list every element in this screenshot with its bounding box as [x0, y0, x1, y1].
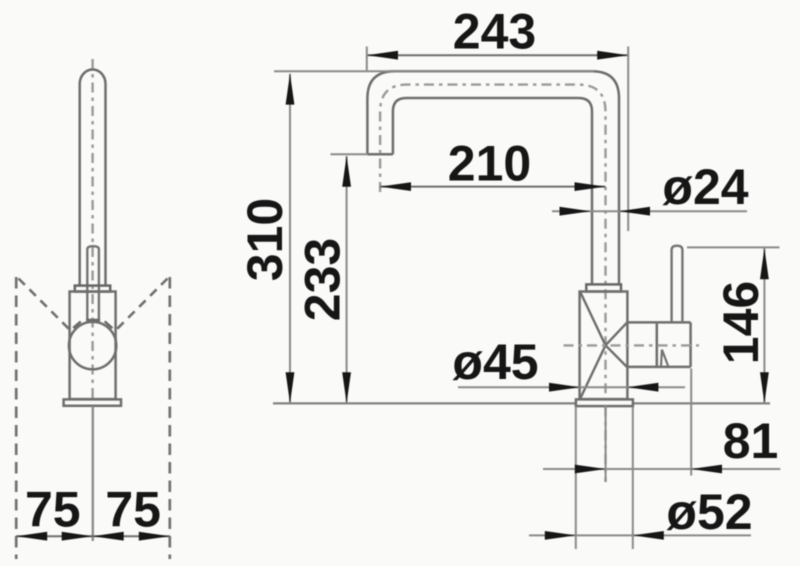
- svg-text:ø24: ø24: [662, 159, 748, 215]
- baseline mounting surface: [273, 402, 770, 404]
- tangent mark left: [73, 322, 81, 328]
- extension 243 left above spout: [366, 47, 368, 73]
- arrow 233 down: [342, 372, 351, 403]
- dimension 75-75: [16, 535, 170, 537]
- reference line top (310): [274, 70, 594, 72]
- dim line 81: [543, 468, 780, 470]
- cone diagonal upper-right: [606, 323, 628, 346]
- arrow dia24 left(tip at tube left edge): [560, 207, 591, 216]
- swivel envelope dashed line left: [15, 277, 18, 559]
- cone diagonal lower-right: [606, 345, 628, 367]
- svg-text:75: 75: [25, 482, 81, 538]
- dim line 75/75: [16, 535, 170, 537]
- base flange side: [576, 399, 633, 406]
- dim line 146: [763, 248, 765, 403]
- arrow dia52 right: [633, 531, 664, 540]
- arrow 210 left: [380, 182, 411, 191]
- lever rod side: [672, 246, 683, 323]
- arrow center left-pointing: [93, 532, 124, 541]
- svg-text:243: 243: [453, 4, 536, 60]
- dim line 210: [380, 186, 606, 188]
- arrow dia52 left: [545, 531, 576, 540]
- arrow 146 up: [760, 248, 769, 279]
- spout outer outline: [367, 71, 619, 284]
- extension lever right (81): [690, 369, 692, 476]
- arrow 243 left: [367, 51, 398, 60]
- dim line 233: [346, 156, 348, 403]
- centerline front vertical: [91, 59, 93, 399]
- arrow center right-pointing: [62, 532, 93, 541]
- dim line dia45: [458, 386, 685, 388]
- svg-text:75: 75: [105, 482, 161, 538]
- dim line dia24: [552, 210, 747, 212]
- arrow dia24 right(tip at tube right edge): [619, 207, 650, 216]
- cone diagonal lower-left: [581, 345, 606, 398]
- stem centerline below flange: [92, 406, 94, 541]
- svg-text:210: 210: [448, 136, 531, 192]
- handle axis centerline: [564, 344, 700, 346]
- collar side: [586, 284, 621, 291]
- body cylinder side: [580, 292, 628, 400]
- dim line 243: [367, 54, 628, 56]
- svg-text:146: 146: [713, 281, 769, 364]
- cone diagonal upper-left: [581, 293, 606, 346]
- arrow 210 right: [575, 182, 606, 191]
- spout inner outline: [393, 98, 592, 284]
- extension centerline below base (81): [605, 406, 607, 483]
- svg-text:ø52: ø52: [666, 484, 752, 540]
- lever rod front: [87, 246, 99, 320]
- lever hinge mark: [661, 350, 668, 367]
- dim line 310: [289, 74, 291, 403]
- arrow 81 left(tip at centerline): [575, 465, 606, 474]
- reference line outlet (233): [331, 153, 369, 155]
- swivel diagonal dashed left: [19, 279, 71, 331]
- svg-text:ø45: ø45: [452, 334, 538, 390]
- base flange front: [64, 399, 121, 405]
- arrow dia45 right: [627, 383, 658, 392]
- handle block divider: [656, 322, 659, 367]
- extension flange left (dia52): [575, 408, 577, 550]
- reference line lever top (146): [687, 246, 780, 248]
- arrow 81 right(tip at lever edge): [691, 465, 722, 474]
- extension 243 right: [627, 47, 629, 232]
- handle neck top: [627, 321, 691, 324]
- swivel diagonal dashed right: [116, 279, 168, 331]
- arrow 310 down: [286, 372, 295, 403]
- arrow 310 up: [286, 74, 295, 105]
- handle neck bottom: [627, 366, 691, 369]
- handle block right edge: [689, 322, 692, 367]
- arrow dia45 left: [549, 383, 580, 392]
- ball circle front: [69, 322, 116, 369]
- svg-text:233: 233: [295, 238, 351, 321]
- arrow 243 right: [597, 51, 628, 60]
- lever rod bottom cap front: [86, 319, 100, 322]
- arrow 233 up: [342, 156, 351, 187]
- spout outlet cap: [367, 153, 393, 156]
- swivel envelope dashed line right: [168, 277, 171, 559]
- tangent mark right: [105, 321, 113, 328]
- svg-text:310: 310: [237, 198, 293, 281]
- body cylinder front: [70, 292, 116, 400]
- extension flange right (dia52): [632, 408, 634, 550]
- dim line dia52: [529, 534, 751, 536]
- arrow tip left 75: [16, 532, 47, 541]
- arrow tip right 75: [139, 532, 170, 541]
- spout centerline dash-dot: [380, 85, 605, 482]
- svg-text:81: 81: [723, 413, 779, 469]
- collar front: [75, 286, 110, 292]
- spout tube front: [80, 70, 106, 285]
- arrow 146 down: [760, 372, 769, 403]
